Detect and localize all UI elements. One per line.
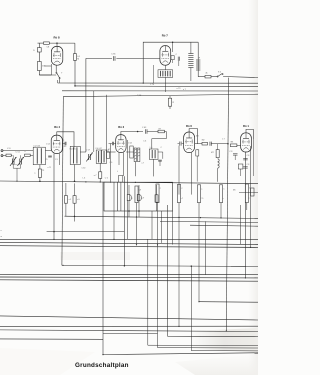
svg-text:C 60: C 60 — [82, 168, 86, 170]
wire bottom2 — [59, 153, 61, 165]
wire — [12, 155, 14, 158]
node — [74, 216, 76, 218]
wire vertical — [205, 221, 207, 274]
wire bus B1 — [0, 238, 258, 240]
svg-text:a: a — [201, 188, 202, 190]
resistor R52 — [38, 165, 41, 182]
wire bus T3 — [62, 90, 258, 92]
resistor R70 — [130, 146, 133, 158]
resistor R91 — [155, 185, 158, 211]
wire rail R3 — [190, 225, 258, 226]
wire — [110, 144, 112, 182]
wire cathode — [244, 152, 246, 278]
wire — [147, 131, 158, 133]
wire top — [57, 132, 74, 148]
wire bus T2 — [75, 85, 258, 88]
svg-text:C 6: C 6 — [105, 177, 108, 179]
wire — [252, 139, 254, 176]
svg-text:R7: R7 — [159, 129, 161, 131]
wire rail R1 — [65, 216, 259, 218]
resistor W52 — [73, 183, 76, 221]
wire — [164, 77, 166, 92]
wire vertical — [85, 58, 87, 152]
wire bottom — [53, 153, 55, 239]
node — [53, 231, 55, 233]
resistor dropper — [197, 185, 200, 302]
capacitor grid6 — [178, 142, 184, 146]
wire corner k4 — [158, 347, 259, 349]
wire — [6, 150, 33, 152]
capacitor C66 — [158, 160, 162, 166]
svg-text:L 6: L 6 — [150, 147, 152, 149]
resistor R54 — [107, 150, 110, 159]
node — [124, 265, 126, 267]
coil L72 — [218, 159, 220, 182]
svg-text:Rö 8: Rö 8 — [54, 35, 61, 39]
wire — [50, 64, 52, 75]
svg-text:C 74: C 74 — [150, 84, 154, 86]
capacitor C69 — [118, 176, 122, 183]
variable capacitor C57 — [88, 154, 90, 160]
wire — [49, 42, 75, 44]
wire switch stub — [57, 80, 59, 83]
svg-text:Rö 7: Rö 7 — [162, 34, 169, 38]
svg-text:C 7: C 7 — [222, 139, 225, 141]
antenna terminal — [1, 150, 6, 157]
wire — [237, 144, 241, 146]
node — [110, 182, 111, 183]
switch S1 — [56, 65, 60, 83]
node — [135, 182, 136, 183]
capacitor C82 — [238, 164, 243, 176]
wire bus B3 — [0, 246, 258, 248]
resistor dropper — [135, 186, 138, 245]
resistor R72 hatched — [134, 148, 136, 162]
wire bottom — [118, 153, 120, 165]
wire vertical — [240, 205, 242, 244]
wire — [116, 57, 160, 59]
wire loop — [152, 132, 167, 150]
wire vertical — [172, 211, 174, 245]
svg-text:a 9: a 9 — [142, 198, 145, 200]
wire — [107, 151, 116, 153]
capacitor C84 — [243, 167, 248, 168]
wire corner k3 — [168, 205, 258, 337]
svg-text:L 6: L 6 — [83, 177, 86, 179]
wire vertical — [151, 211, 153, 239]
wire corner k1 — [199, 301, 258, 304]
svg-text:a 7: a 7 — [183, 89, 186, 91]
wire — [158, 152, 163, 159]
switch S2 — [217, 74, 258, 78]
wire bus B4 — [0, 273, 258, 275]
node — [62, 265, 63, 266]
wire stub right — [231, 265, 246, 267]
node — [220, 217, 221, 218]
wire — [74, 165, 76, 182]
variable capacitor C52 — [11, 159, 13, 165]
node — [74, 85, 76, 87]
wire — [103, 353, 258, 355]
node — [226, 330, 227, 331]
wire — [11, 154, 12, 156]
node — [56, 42, 58, 44]
svg-text:C 6: C 6 — [143, 141, 146, 143]
svg-text:J65: J65 — [63, 146, 66, 148]
capacitor C76 — [209, 142, 211, 146]
svg-text:L: L — [117, 171, 118, 173]
wire plate row — [195, 143, 202, 145]
wire rail y231 — [47, 231, 125, 233]
wire — [198, 76, 205, 78]
resistor R51 — [25, 154, 31, 156]
svg-text:Rö 6: Rö 6 — [186, 124, 192, 128]
resistor input — [6, 154, 11, 156]
svg-text:a: a — [132, 198, 133, 200]
capacitor C55 — [48, 155, 52, 157]
resistor M31 — [230, 144, 237, 147]
wire — [211, 143, 228, 145]
wire — [239, 192, 258, 194]
wire top — [189, 129, 197, 144]
svg-text:C 5: C 5 — [55, 159, 58, 161]
wire vertical — [93, 91, 95, 152]
svg-text:C 9: C 9 — [201, 198, 204, 200]
wire bottom2 — [123, 153, 125, 176]
wire — [164, 65, 166, 70]
svg-text:C 64: C 64 — [128, 143, 132, 145]
svg-text:C 54: C 54 — [46, 144, 50, 146]
wire bus T4 — [63, 94, 258, 97]
svg-text:4k: 4k — [205, 73, 207, 75]
wire grid tap — [45, 65, 52, 67]
svg-text:Rö 4: Rö 4 — [54, 125, 60, 129]
node — [137, 131, 139, 133]
svg-text:M3: M3 — [231, 142, 234, 144]
capacitor C81 — [112, 56, 114, 61]
svg-text:2,5M: 2,5M — [137, 95, 142, 97]
wire vertical long — [226, 78, 228, 331]
tube Rö 7 — [160, 46, 171, 66]
svg-text:a 5: a 5 — [69, 199, 72, 201]
coil L57 — [102, 150, 107, 163]
svg-text:Grundschaltplan: Grundschaltplan — [75, 362, 129, 369]
node — [100, 181, 101, 182]
node — [157, 244, 158, 245]
resistor W51 — [64, 183, 67, 216]
wire bus M1 — [0, 181, 258, 184]
wire rail L1 — [0, 316, 258, 320]
wire bus B5 — [0, 276, 258, 279]
node — [53, 239, 54, 240]
wire — [134, 162, 136, 177]
tube Rö 3 — [116, 135, 126, 153]
resistor 1M — [37, 62, 41, 76]
resistor R53 — [99, 163, 102, 181]
node — [143, 83, 144, 84]
svg-text:a 7: a 7 — [142, 163, 145, 165]
svg-text:C 8: C 8 — [229, 151, 232, 153]
svg-text:a: a — [25, 151, 26, 153]
wire — [250, 146, 252, 247]
resistor 4k7 — [205, 75, 211, 78]
wire — [178, 146, 180, 195]
svg-text:Rö 1: Rö 1 — [243, 124, 249, 128]
wire vertical — [153, 65, 155, 83]
svg-text:M1: M1 — [233, 190, 236, 192]
node — [178, 217, 179, 218]
wire corner k5 — [148, 239, 258, 345]
node — [178, 326, 179, 327]
wire vertical — [120, 182, 122, 211]
wire top — [246, 129, 253, 139]
svg-text:M7: M7 — [211, 152, 214, 154]
capacitor C63 — [145, 129, 147, 133]
wire top — [143, 42, 198, 83]
wire rail L4 — [0, 338, 103, 340]
svg-text:L52 L53: L52 L53 — [34, 145, 41, 147]
resistor M72 — [196, 149, 199, 181]
wire cathode — [191, 153, 193, 195]
capacitor C83 — [243, 159, 248, 160]
wire — [38, 42, 44, 44]
resistor R11 — [251, 188, 254, 196]
electrolytic C92 — [137, 185, 141, 217]
node — [85, 181, 86, 182]
coil L56 — [96, 150, 101, 163]
node — [128, 210, 130, 212]
svg-text:C 8: C 8 — [247, 155, 250, 157]
svg-text:a 5: a 5 — [77, 199, 80, 201]
wire — [80, 151, 86, 153]
wire — [86, 57, 112, 59]
resistor R71 — [158, 130, 164, 133]
electrolytic C91 — [127, 185, 131, 217]
capacitor grid — [64, 142, 66, 146]
svg-text:L54 L55: L54 L55 — [70, 149, 76, 151]
node — [136, 216, 137, 217]
node — [198, 301, 199, 302]
svg-text:a 71: a 71 — [48, 167, 52, 169]
enclosure box — [104, 182, 173, 211]
node — [74, 180, 76, 182]
node — [39, 180, 41, 182]
resistor R73 hatched — [138, 148, 140, 162]
wire — [211, 76, 217, 78]
wire rail L4b — [103, 332, 158, 334]
node — [200, 217, 201, 218]
wire rail L2 — [0, 325, 258, 327]
wire — [30, 154, 33, 156]
variable capacitor C53 — [19, 159, 21, 165]
wire — [62, 97, 63, 266]
resistor dropper — [245, 184, 248, 210]
wire gang dashed — [13, 164, 20, 166]
node — [138, 210, 140, 212]
svg-text:M3: M3 — [196, 136, 199, 138]
capacitor C62 — [171, 56, 174, 63]
resistor R81 — [44, 42, 50, 44]
wire — [62, 143, 65, 145]
node — [113, 239, 114, 240]
resistor dropper — [177, 184, 180, 326]
node — [245, 277, 246, 278]
capacitor C63a — [178, 57, 179, 66]
node — [227, 143, 229, 145]
wire bus B6 — [0, 280, 258, 281]
svg-text:Rö 3: Rö 3 — [118, 125, 124, 129]
wire — [126, 151, 134, 153]
wire — [172, 42, 174, 52]
svg-text:a: a — [160, 188, 161, 190]
tube Rö 8 — [51, 46, 62, 65]
transformer L52 L53 — [33, 147, 45, 165]
capacitor C81r — [233, 154, 238, 160]
svg-text:a 7: a 7 — [94, 175, 97, 177]
svg-text:M2: M2 — [202, 140, 205, 142]
resistor 0.1M — [73, 54, 76, 86]
resistor R76 — [168, 96, 171, 109]
wire rail R2 — [160, 221, 258, 222]
svg-text:73: 73 — [42, 170, 44, 172]
svg-text:a: a — [223, 198, 224, 200]
svg-text:L56 L57: L56 L57 — [96, 148, 102, 150]
wire — [109, 143, 113, 145]
wire vertical — [123, 176, 125, 266]
wire bus B2 — [0, 242, 258, 244]
resistor M71 — [216, 144, 219, 158]
node — [172, 41, 174, 43]
wire top — [121, 132, 143, 135]
wire — [74, 43, 76, 54]
wire — [45, 150, 51, 152]
node — [102, 354, 103, 355]
svg-text:C 8: C 8 — [247, 164, 250, 166]
wire switch feed — [39, 74, 56, 76]
svg-text:C 6: C 6 — [110, 162, 113, 164]
resistor dropper — [219, 185, 222, 218]
svg-text:a 7: a 7 — [181, 198, 184, 200]
wire vertical — [106, 95, 108, 152]
svg-text:C5: C5 — [45, 159, 47, 161]
wire vertical — [113, 182, 115, 239]
wire link y265 — [62, 265, 258, 266]
transformer primary — [188, 42, 193, 81]
wire — [56, 43, 58, 46]
node — [136, 244, 137, 245]
wire vertical — [117, 182, 119, 211]
node — [191, 265, 193, 267]
wire — [153, 159, 155, 176]
transformer secondary — [196, 42, 200, 76]
tube Rö 1 — [241, 133, 252, 152]
wire vertical — [126, 140, 128, 239]
capacitor grid3 — [111, 142, 113, 146]
coil L71 — [158, 70, 173, 78]
node — [16, 181, 17, 182]
tube Rö 4 — [51, 135, 62, 153]
wire vertical — [160, 211, 162, 243]
wire bus T1 — [58, 82, 258, 84]
wire corner k6 — [191, 266, 258, 351]
coil L61 — [149, 149, 158, 159]
resistor M21 — [202, 142, 208, 145]
wire feed — [102, 182, 104, 354]
resistor dropper — [156, 184, 159, 348]
svg-text:L 51: L 51 — [7, 148, 11, 150]
wire — [39, 74, 51, 76]
wire rail L3 — [0, 330, 258, 332]
diode D81 — [37, 43, 41, 61]
tube Rö 6 — [184, 132, 195, 153]
transformer L54 L55 — [70, 146, 80, 164]
node — [250, 247, 251, 248]
